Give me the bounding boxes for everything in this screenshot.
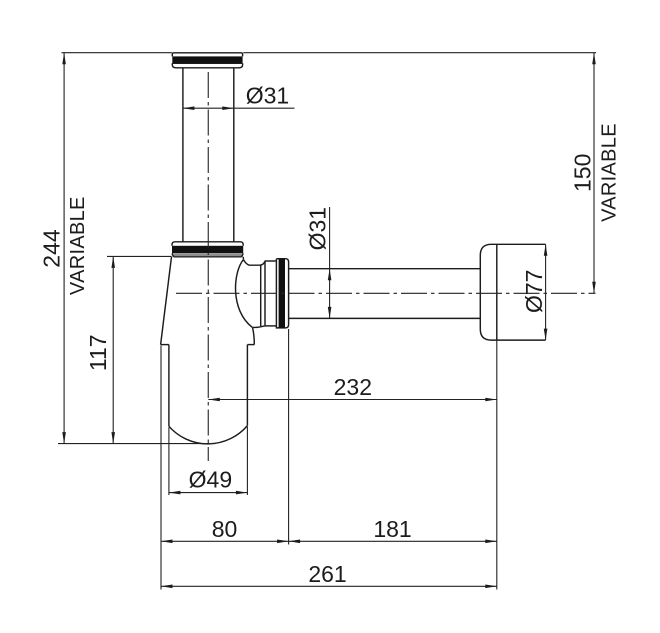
extension dia49 right [246,427,248,495]
arrows 80 [161,540,173,544]
dim line 150 variable right [593,53,595,294]
arrows 150 [592,53,596,64]
mid nut black band [172,246,243,254]
outlet nut step1 bottom [265,325,277,327]
elbow blend bottom cusp [252,326,264,328]
outlet nut step1 face line [264,261,266,325]
svg-text:VARIABLE: VARIABLE [599,123,621,222]
dim line dia31 right [329,207,331,318]
svg-text:117: 117 [85,334,111,371]
arrows 181 [289,540,301,544]
body cone left edge [161,257,172,345]
svg-text:Ø31: Ø31 [246,83,289,109]
extension nut right [288,329,290,545]
arrows 261 [161,585,173,589]
svg-text:80: 80 [212,516,238,542]
svg-text:Ø49: Ø49 [189,467,232,493]
right shoulder [247,344,254,346]
top flange black band [172,56,242,63]
body right edge below elbow [253,328,255,345]
vertical pipe right wall [233,68,235,242]
arrows 117 [111,256,115,268]
wall flange outline [480,244,545,340]
svg-text:244: 244 [39,229,65,268]
top flange lip [172,63,242,68]
wall flange seam line [496,244,498,340]
horizontal pipe top wall [289,268,481,270]
cup right wall [246,345,248,426]
arrows 244 [62,53,66,64]
dimension texts [39,83,621,588]
mid nut lip inner line [174,254,242,256]
dimension lines and extension lines [58,53,596,590]
dim line dia31 top [183,107,295,109]
arrows dia77 [544,244,548,256]
top flange outline [172,53,242,57]
arrows [62,53,596,588]
cup bottom arc [169,426,248,444]
arrows dia31 top [183,106,195,110]
svg-text:232: 232 [334,374,372,400]
dim line dia49 [169,492,248,494]
dim line 261 [161,585,497,587]
left shoulder [161,344,169,346]
cup left wall [168,345,170,427]
svg-text:181: 181 [373,516,411,542]
centerlines [176,72,596,461]
vertical pipe left wall [182,68,184,242]
bottom extension line (trap bottom) [58,443,216,445]
extension dia49 left [168,427,170,495]
outlet collar left face [260,265,262,326]
extension body left [160,346,162,590]
svg-text:261: 261 [308,561,346,587]
dim line 232 [208,399,497,401]
horizontal centerline [176,292,596,294]
extension line 117 top [107,255,172,257]
outlet nut step2 outline [276,259,288,328]
arrows dia49 [169,491,181,495]
svg-text:150: 150 [570,154,596,192]
elbow intersection curve [236,259,253,327]
extension wall [496,340,498,589]
svg-text:Ø31: Ø31 [305,207,331,250]
mid nut lip [172,253,243,256]
dim line dia77 [545,244,547,340]
body cone right edge top stub [242,257,244,260]
svg-text:VARIABLE: VARIABLE [67,196,89,295]
arrows dia31 right [328,269,332,281]
mid nut outline [172,242,243,246]
svg-text:Ø77: Ø77 [521,270,547,313]
dim line 244 [63,53,65,444]
dim line 80-181 [161,540,497,542]
elbow blend top valley [244,260,265,265]
arrows 232 [208,398,220,402]
top extension line [62,52,597,54]
dim line 117 [112,256,114,443]
outlet nut step1 top [265,260,277,262]
horizontal pipe bottom wall [289,317,481,319]
vertical centerline [207,72,209,461]
outlet nut black band [279,259,285,328]
